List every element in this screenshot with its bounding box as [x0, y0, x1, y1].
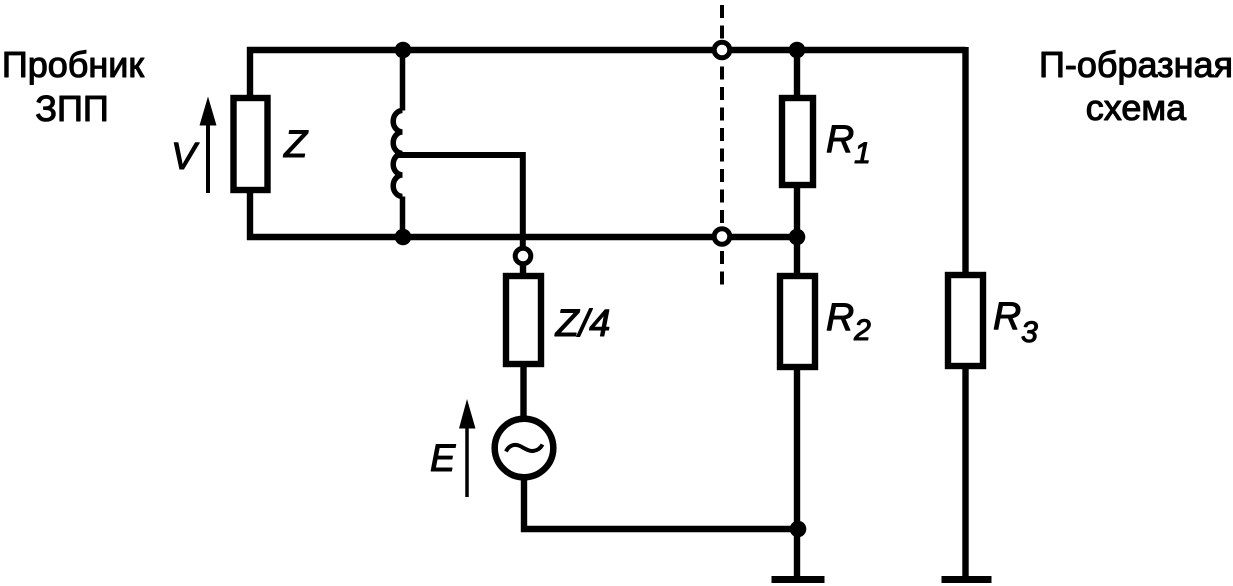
- svg-text:Пробник: Пробник: [2, 44, 145, 85]
- svg-text:П-образная: П-образная: [1039, 44, 1233, 85]
- wire: source E bottom to ground node: [524, 476, 797, 529]
- svg-text:R1: R1: [826, 118, 871, 170]
- ground under R2: [772, 576, 825, 583]
- wire: probe bottom bus: [247, 234, 797, 240]
- label: probe title: [2, 44, 145, 129]
- wire: R3 to ground: [962, 366, 968, 576]
- wire: left vertical, Z to probe bottom bus: [247, 190, 253, 240]
- resistor R2: [780, 276, 815, 367]
- wire: coil tap to probe terminal: [396, 152, 523, 249]
- wire: top horizontal bus: [247, 47, 966, 53]
- junction dot: coil top: [395, 42, 412, 59]
- svg-text:Z/4: Z/4: [555, 303, 611, 345]
- junction dot: R1 top: [789, 42, 806, 59]
- junction dot: R1 bottom: [789, 229, 806, 246]
- wire: R1 to bottom bus: [794, 185, 800, 237]
- wire: left vertical, top bus to Z: [247, 47, 253, 98]
- label: pi-network title: [1039, 44, 1233, 128]
- svg-text:R3: R3: [993, 295, 1038, 349]
- wire: R2 to ground: [794, 367, 800, 576]
- resistor R3: [948, 275, 983, 366]
- wire: Z/4 to source E: [520, 364, 526, 422]
- inductor coil: [393, 50, 402, 237]
- impedance Z: [234, 98, 268, 190]
- source E (AC): [495, 419, 554, 478]
- terminal: probe to Z/4: [515, 248, 531, 264]
- impedance Z/4: [506, 276, 541, 364]
- junction dot: coil bottom: [395, 229, 412, 246]
- svg-text:R2: R2: [826, 296, 871, 347]
- wire: right vertical, top bus to R3: [962, 47, 968, 275]
- wire: top bus to R1: [794, 53, 800, 98]
- dashed boundary line: [720, 5, 724, 285]
- svg-text:V: V: [171, 136, 200, 178]
- resistor R1: [782, 98, 813, 185]
- svg-text:ЗПП: ЗПП: [35, 88, 109, 129]
- wire: bottom bus to R2: [794, 237, 800, 276]
- terminal: boundary bottom: [714, 229, 730, 245]
- arrow E: [459, 399, 476, 497]
- svg-text:E: E: [430, 438, 456, 480]
- svg-text:схема: схема: [1086, 87, 1187, 128]
- junction dot: ground node: [790, 521, 807, 538]
- arrow V: [200, 97, 217, 194]
- terminal: boundary top: [714, 42, 730, 58]
- ground under R3: [942, 576, 992, 583]
- svg-text:Z: Z: [283, 124, 309, 166]
- wire: terminal to Z/4: [520, 264, 526, 277]
